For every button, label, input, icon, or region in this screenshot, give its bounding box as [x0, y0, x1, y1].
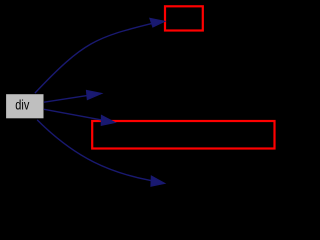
edge div->middle node (straight) — [44, 96, 87, 103]
edge div->top node (curve) — [35, 24, 152, 94]
arrowhead middle — [86, 90, 101, 99]
edge div->large red node — [44, 109, 102, 120]
arrowhead bottom — [151, 176, 165, 186]
edge div->bottom node (curve) — [37, 120, 151, 181]
svg-text:div: div — [15, 97, 29, 113]
arrowhead to top node — [150, 18, 165, 27]
node large (red bordered, truncated) — [92, 121, 274, 149]
node div (current node, grey filled) — [6, 94, 43, 118]
node top (red bordered, truncated) — [165, 6, 203, 30]
arrowhead large red node — [101, 115, 115, 125]
